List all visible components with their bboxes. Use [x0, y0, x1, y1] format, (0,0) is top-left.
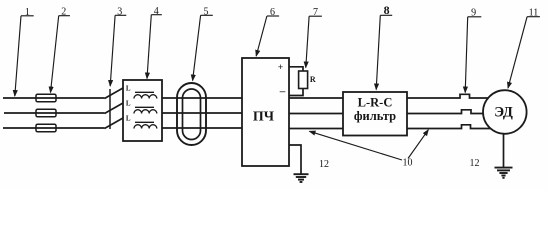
svg-text:+: +: [278, 63, 283, 73]
svg-text:–: –: [279, 86, 286, 98]
reactor block box: [123, 80, 162, 141]
callout leader 2: [51, 16, 70, 93]
ground symbol under converter: [294, 174, 309, 182]
motor circle M1: [483, 90, 527, 134]
callout leader 1: [15, 16, 34, 96]
svg-text:2: 2: [61, 7, 66, 18]
callout leader 10 right arrow: [408, 130, 428, 159]
ground symbol under motor: [495, 168, 513, 178]
svg-text:L-R-C: L-R-C: [358, 96, 393, 110]
svg-text:3: 3: [117, 6, 122, 17]
converter ground wire: [289, 145, 301, 174]
svg-text:5: 5: [204, 6, 209, 17]
svg-text:L: L: [126, 115, 131, 123]
callout leader 4: [147, 15, 162, 79]
switch blade pole C: [105, 118, 124, 129]
svg-text:R: R: [310, 75, 316, 84]
wire phase A input: [3, 97, 105, 99]
wire converter to filter B: [289, 113, 343, 115]
wire filter to motor A with connector: [407, 94, 489, 98]
ferrite ring core outer: [177, 83, 206, 145]
callout leader 7: [306, 16, 322, 67]
wire reactor to converter C: [162, 127, 242, 129]
motor ground wire: [503, 134, 505, 168]
wire phase C input: [3, 127, 105, 129]
inductor L2 winding: [134, 110, 157, 114]
svg-text:12: 12: [319, 159, 329, 170]
wire reactor to converter A: [162, 97, 242, 99]
wire filter to motor C with connector: [407, 125, 492, 129]
inductor L1 winding: [134, 95, 157, 99]
callout leader 8: [376, 15, 392, 89]
wire phase B input: [4, 112, 105, 114]
ferrite ring core inner: [183, 89, 201, 140]
switch blade pole B: [105, 103, 124, 114]
wire converter to filter C: [289, 128, 343, 130]
frequency converter box U1: [242, 58, 289, 166]
svg-text:6: 6: [270, 7, 275, 18]
svg-text:4: 4: [154, 6, 159, 17]
fuse F2: [36, 109, 56, 117]
svg-text:ЭД: ЭД: [494, 105, 513, 121]
callout leader 6: [256, 16, 279, 56]
svg-text:фильтр: фильтр: [354, 109, 396, 123]
svg-text:L: L: [126, 85, 131, 93]
wire filter to motor B with connector: [407, 110, 484, 114]
inductor L3 core bar: [135, 121, 154, 123]
svg-text:12: 12: [470, 158, 480, 169]
svg-text:L: L: [126, 100, 131, 108]
switch blade pole A: [105, 88, 124, 99]
svg-text:11: 11: [529, 8, 539, 19]
wire converter to filter A: [289, 97, 343, 99]
callout leader 11: [508, 17, 540, 88]
svg-text:7: 7: [313, 7, 318, 18]
brake resistor R loop wire: [289, 67, 303, 96]
inductor L1 core bar: [135, 91, 154, 93]
switch linkage bar: [109, 89, 111, 129]
brake resistor R body: [299, 71, 308, 89]
svg-text:ПЧ: ПЧ: [253, 110, 275, 125]
wire reactor to converter B: [162, 112, 242, 114]
callout leader 3: [110, 15, 126, 86]
inductor L3 winding: [134, 125, 157, 129]
inductor L2 core bar: [135, 106, 154, 108]
callout leader 5: [193, 15, 213, 80]
svg-text:9: 9: [471, 8, 476, 19]
fuse F3: [36, 124, 56, 132]
fuse F1: [36, 94, 56, 102]
svg-text:1: 1: [25, 7, 30, 18]
callout leader 10 left arrow: [310, 131, 403, 160]
L-R-C filter box: [343, 92, 407, 136]
svg-text:10: 10: [403, 158, 413, 169]
callout leader 9: [465, 17, 481, 93]
svg-text:8: 8: [384, 3, 390, 17]
